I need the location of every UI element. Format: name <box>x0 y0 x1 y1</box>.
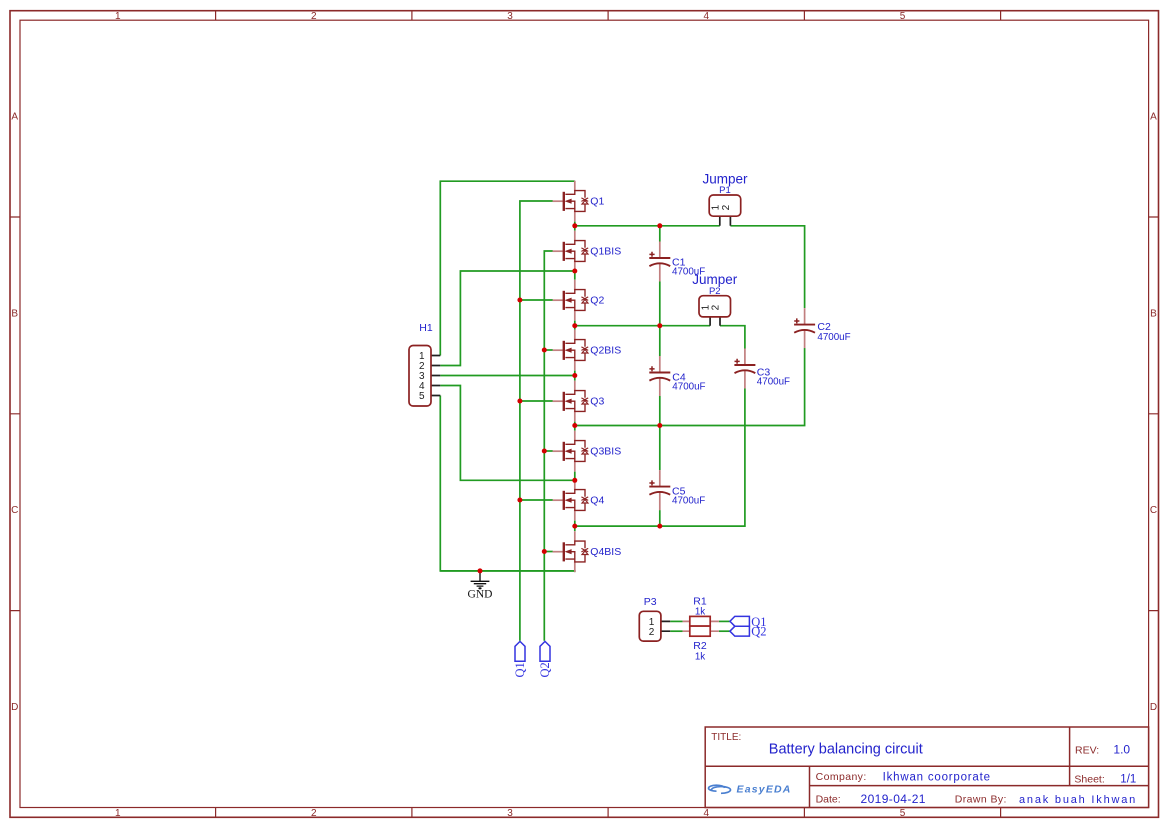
capacitor C1 <box>649 242 705 282</box>
svg-text:B: B <box>1150 308 1157 319</box>
jumper P2 <box>692 272 738 317</box>
wire C5 top connection <box>659 426 661 471</box>
svg-text:4700uF: 4700uF <box>817 332 850 343</box>
svg-text:D: D <box>1150 702 1157 713</box>
svg-text:TITLE:: TITLE: <box>711 732 741 743</box>
svg-text:A: A <box>11 112 18 123</box>
net flag Q1 (bottom) <box>513 641 527 677</box>
svg-text:4700uF: 4700uF <box>757 377 790 388</box>
wire R2 to flag Q2 <box>719 630 730 632</box>
wire node E line to C2 bottom <box>575 348 805 426</box>
transistor Q2BIS <box>553 330 622 371</box>
svg-text:2: 2 <box>311 808 317 819</box>
svg-text:2: 2 <box>721 204 732 210</box>
svg-text:H1: H1 <box>419 322 433 334</box>
transistor Q3BIS <box>553 431 622 472</box>
svg-text:5: 5 <box>900 11 906 22</box>
capacitor C4 <box>649 356 705 396</box>
svg-text:Q2BIS: Q2BIS <box>590 345 621 357</box>
svg-text:P3: P3 <box>644 596 657 608</box>
svg-text:GND: GND <box>468 589 493 601</box>
svg-text:REV:: REV: <box>1075 745 1099 757</box>
wire R1 to flag Q1 <box>719 620 730 622</box>
svg-text:Q2: Q2 <box>538 662 552 677</box>
ground <box>468 571 493 601</box>
svg-text:Ikhwan coorporate: Ikhwan coorporate <box>883 772 991 784</box>
wire H1 pin4 to node F <box>440 386 575 481</box>
svg-text:Q2: Q2 <box>590 295 604 307</box>
wire spine segments between MOSFETs <box>574 222 576 572</box>
connector H1 <box>409 322 433 406</box>
net flag Q2 (bottom) <box>538 641 552 677</box>
svg-text:Q3: Q3 <box>590 396 604 408</box>
svg-text:1k: 1k <box>695 652 705 663</box>
wire C5 bottom to node G <box>659 510 661 526</box>
svg-text:anak buah Ikhwan: anak buah Ikhwan <box>1019 794 1137 806</box>
svg-text:Q3BIS: Q3BIS <box>590 446 621 458</box>
wire node G line to C3 bottom <box>575 389 745 527</box>
wire H1 pin5 down to bottom rail <box>440 396 575 571</box>
title block <box>705 727 1148 808</box>
svg-text:Q4: Q4 <box>590 495 604 507</box>
wire gate stub Q4BIS <box>544 551 553 553</box>
svg-text:4700uF: 4700uF <box>672 382 705 393</box>
wire H1 pin2 to node B <box>440 271 575 366</box>
wire P3 pin2 to R2 <box>670 630 682 632</box>
svg-text:R2: R2 <box>693 640 707 652</box>
svg-text:2019-04-21: 2019-04-21 <box>861 792 926 806</box>
junction dots <box>572 223 577 228</box>
svg-text:3: 3 <box>507 11 513 22</box>
transistor Q1 <box>553 181 605 222</box>
P1 pin stubs <box>720 216 731 225</box>
svg-text:2: 2 <box>311 11 317 22</box>
svg-text:1.0: 1.0 <box>1113 743 1130 757</box>
wire C1 bottom to node C <box>659 282 661 326</box>
P2 pin stubs <box>710 317 720 326</box>
wire gate bus Q1-Q4 down to flag Q1 <box>520 201 553 641</box>
wire C4 top connection <box>659 326 661 356</box>
wire bottom rail with GND <box>440 570 575 572</box>
svg-text:1: 1 <box>710 204 721 210</box>
resistor R1 1k <box>690 595 710 626</box>
svg-text:Battery balancing circuit: Battery balancing circuit <box>769 741 923 757</box>
wire node C line to P2 pin1 <box>575 325 710 327</box>
transistor Q4BIS <box>553 531 622 572</box>
wire H1 pin1 to Q1 drain top <box>440 181 575 355</box>
svg-text:Q2: Q2 <box>751 625 766 639</box>
svg-text:Q1BIS: Q1BIS <box>590 246 621 258</box>
svg-text:EasyEDA: EasyEDA <box>737 784 792 796</box>
svg-text:2: 2 <box>711 304 722 310</box>
wire gate bus Q1BIS-Q4BIS down to flag Q2 <box>544 251 553 641</box>
transistor Q1BIS <box>553 231 622 272</box>
svg-text:C: C <box>11 505 18 516</box>
svg-text:3: 3 <box>507 808 513 819</box>
wire C1 top connection <box>659 226 661 242</box>
svg-text:1/1: 1/1 <box>1120 774 1136 786</box>
svg-text:1: 1 <box>115 808 121 819</box>
R1 pin leads <box>683 620 719 622</box>
svg-text:D: D <box>11 702 18 713</box>
H1 pin stubs <box>431 356 440 396</box>
wire P3 pin1 to R1 <box>670 620 682 622</box>
wire P1 pin2 to C2 top <box>730 226 804 308</box>
capacitor C3 <box>734 349 790 389</box>
svg-text:Drawn By:: Drawn By: <box>955 794 1007 806</box>
wire H1 pin3 to node D <box>440 375 575 377</box>
EasyEDA logo <box>709 784 792 796</box>
wire C4 bottom to node E <box>659 396 661 426</box>
svg-text:1k: 1k <box>695 607 705 618</box>
svg-text:Q4BIS: Q4BIS <box>590 546 621 558</box>
resistor R2 1k <box>690 626 710 663</box>
svg-text:1: 1 <box>115 11 121 22</box>
svg-text:4: 4 <box>704 11 710 22</box>
capacitor C2 <box>794 308 851 348</box>
wire P2 pin2 to C3 top <box>720 326 745 349</box>
svg-text:B: B <box>11 308 18 319</box>
svg-text:Date:: Date: <box>816 794 841 806</box>
transistor Q3 <box>553 381 605 422</box>
wire gate stub Q3BIS <box>544 450 553 452</box>
svg-text:A: A <box>1150 112 1157 123</box>
svg-text:C: C <box>1150 505 1157 516</box>
net flag Q2 (right) <box>730 625 767 639</box>
P3 pin stubs <box>661 621 670 631</box>
net flag Q1 (right) <box>730 615 767 629</box>
wire gate stub Q4 <box>520 499 553 501</box>
svg-text:5: 5 <box>419 391 425 402</box>
wire node A line to P1 pin1 <box>575 225 720 227</box>
transistor Q2 <box>553 280 605 321</box>
svg-text:Sheet:: Sheet: <box>1074 773 1104 785</box>
svg-text:4: 4 <box>704 808 710 819</box>
wire gate stub Q2 <box>520 299 553 301</box>
svg-text:4700uF: 4700uF <box>672 496 705 507</box>
jumper P1 <box>702 172 748 217</box>
svg-text:2: 2 <box>649 627 655 638</box>
wire gate stub Q3 <box>520 400 553 402</box>
svg-text:Company:: Company: <box>816 771 867 783</box>
connector P3 <box>639 596 661 641</box>
svg-text:5: 5 <box>900 808 906 819</box>
wire gate stub Q2BIS <box>544 349 553 351</box>
capacitor C5 <box>649 470 705 510</box>
transistor Q4 <box>553 480 605 521</box>
svg-text:R1: R1 <box>693 595 707 607</box>
svg-text:Q1: Q1 <box>513 662 527 677</box>
svg-text:Q1: Q1 <box>590 196 604 208</box>
R2 pin leads <box>683 630 719 632</box>
